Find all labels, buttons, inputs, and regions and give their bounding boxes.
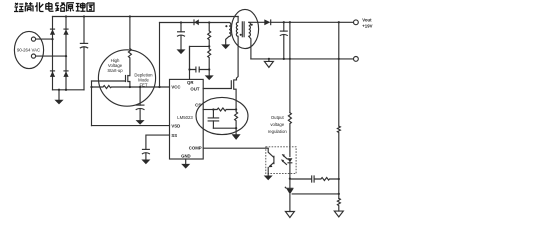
wire drain to primary bbox=[237, 36, 239, 78]
ground opto emitter bbox=[264, 176, 273, 181]
circle High Voltage Start-up bbox=[98, 50, 155, 106]
svg-text:90-264 VAC: 90-264 VAC bbox=[17, 48, 40, 53]
ground QR bbox=[208, 70, 210, 76]
resistor comp bbox=[314, 178, 339, 181]
bridge rectifier right column wire bbox=[65, 17, 67, 90]
svg-text:+19V: +19V bbox=[362, 24, 372, 29]
node output cap top bbox=[283, 21, 285, 23]
node divider B cross bbox=[338, 58, 340, 60]
wire aux bottom bbox=[226, 36, 229, 44]
IC U1 LM5023 box bbox=[170, 79, 204, 159]
wire output bottom rail bbox=[251, 58, 353, 60]
wire aux rail bbox=[160, 22, 230, 24]
svg-text:QR: QR bbox=[187, 80, 194, 85]
node QR divider top bbox=[208, 21, 210, 23]
node primary dot bbox=[240, 34, 242, 36]
wire comp RC left bbox=[290, 178, 311, 180]
LED opto bbox=[287, 158, 292, 162]
svg-text:Output: Output bbox=[271, 115, 285, 120]
node TL431 cathode tap bbox=[289, 178, 291, 180]
wire divider A bbox=[289, 22, 291, 112]
wire QR cap left leg bbox=[189, 46, 191, 69]
node sense resistor bottom bbox=[235, 127, 237, 129]
wire divider B bbox=[338, 22, 340, 126]
wire secondary bottom bbox=[249, 36, 251, 59]
capacitor QR filter bbox=[190, 69, 210, 71]
wire AC bottom to bridge right column bbox=[36, 55, 66, 57]
shunt regulator TL431 bbox=[289, 179, 291, 188]
node bridge right bottom bbox=[65, 89, 67, 91]
wire FET gate bbox=[92, 80, 126, 82]
capacitor VCC bbox=[139, 87, 141, 105]
node bridge ground tap bbox=[58, 89, 60, 91]
wire divider B mid bbox=[338, 179, 340, 198]
wire AC top to bridge left column bbox=[36, 38, 53, 40]
optocoupler U2 dashed box bbox=[266, 147, 296, 174]
ground TL431 hollow bbox=[285, 212, 294, 218]
svg-text:OUT: OUT bbox=[190, 87, 199, 92]
wire VSD run bbox=[92, 125, 170, 127]
wire GND pin bbox=[185, 159, 187, 164]
light arrows bbox=[282, 161, 287, 165]
wire gate-VSD vertical bbox=[91, 81, 93, 126]
svg-text:GND: GND bbox=[181, 154, 191, 159]
core line left bbox=[241, 21, 243, 37]
node divider A top bbox=[289, 21, 291, 23]
AC source ellipse 90-264 VAC bbox=[14, 31, 43, 68]
理 bbox=[76, 3, 86, 12]
resistor divider B upper bbox=[337, 126, 340, 179]
capacitor comp bbox=[312, 175, 314, 182]
ground bridge bbox=[58, 90, 60, 100]
svg-text:voltage: voltage bbox=[270, 122, 284, 127]
node bridge right top bbox=[65, 15, 67, 17]
wire QR tap to pin line bbox=[190, 46, 210, 79]
经 bbox=[14, 3, 24, 12]
node bridge left AC junction bbox=[51, 38, 53, 40]
terminal Vout- bbox=[354, 57, 359, 62]
winding primary bbox=[236, 22, 238, 36]
capacitor SS bbox=[142, 148, 150, 150]
svg-text:regulation: regulation bbox=[268, 129, 287, 134]
resistor QR lower bbox=[208, 46, 211, 69]
svg-text:Vout: Vout bbox=[362, 18, 372, 23]
winding auxiliary bbox=[229, 23, 231, 37]
wire SS pin bbox=[146, 135, 170, 149]
bridge bottom rail bbox=[53, 89, 85, 91]
node bridge right AC junction bbox=[65, 55, 67, 57]
diode D4 bridge lower-right bbox=[63, 71, 68, 77]
diode D3 bridge lower-left bbox=[50, 71, 55, 77]
AC terminal top bbox=[31, 37, 35, 41]
wire HV startup drop bbox=[129, 17, 131, 49]
node output cap bottom bbox=[283, 58, 285, 60]
图 bbox=[87, 3, 94, 11]
ground IC bbox=[181, 164, 190, 169]
node QR cap left bbox=[188, 68, 190, 70]
node ref join bbox=[338, 193, 340, 195]
diode D2 bridge upper-right bbox=[63, 29, 68, 34]
node VCC cap tap bbox=[139, 86, 141, 88]
transistor opto phototransistor bbox=[273, 156, 275, 165]
resistor current sense bbox=[235, 110, 238, 129]
wire output top rail bbox=[271, 21, 354, 23]
node FET source join bbox=[129, 86, 131, 88]
wire CS cap to ground node bbox=[213, 127, 236, 129]
resistor QR upper bbox=[208, 23, 211, 47]
diode output rectifier bbox=[264, 19, 270, 25]
wire COMP to opto bbox=[203, 147, 268, 149]
wire CS pin bbox=[203, 109, 213, 111]
node QR tap bbox=[208, 45, 210, 47]
node aux VCC join bbox=[158, 86, 160, 88]
wire secondary top bbox=[249, 21, 265, 23]
wire OUT to gate bbox=[203, 88, 231, 90]
ground divider hollow bbox=[334, 211, 343, 217]
node HV startup tap bbox=[129, 15, 131, 17]
原 bbox=[66, 3, 74, 12]
resistor startup source bbox=[92, 86, 130, 89]
capacitor bulk electrolytic bbox=[83, 17, 85, 44]
node sec ground tap bbox=[268, 58, 270, 60]
transistor Q1 depletion FET bbox=[128, 75, 130, 76]
resistor HV startup bbox=[128, 49, 131, 75]
ground sense bbox=[235, 128, 237, 134]
transistor Q2 power MOSFET bbox=[230, 80, 232, 89]
node QR cap right bbox=[208, 68, 210, 70]
wire rail to primary bbox=[237, 17, 239, 23]
node startup resistor left bbox=[90, 86, 92, 88]
diode VCC rectifier bbox=[194, 19, 198, 25]
node aux dot bbox=[225, 25, 227, 27]
title 经简化电路原理图 bbox=[14, 2, 94, 12]
node aux cap tap bbox=[180, 21, 182, 23]
resistor divider A upper bbox=[288, 113, 291, 157]
ground SS cap bbox=[141, 160, 150, 165]
wire TL431 ref bbox=[292, 193, 339, 195]
node secondary dot bbox=[251, 24, 253, 26]
路 bbox=[56, 3, 66, 11]
core line right bbox=[243, 21, 245, 37]
bridge rectifier left column wire bbox=[52, 17, 54, 90]
winding secondary bbox=[249, 22, 251, 36]
svg-text:VSD: VSD bbox=[171, 123, 180, 128]
resistor CS filter bbox=[213, 108, 236, 111]
terminal Vout+ bbox=[354, 20, 359, 25]
node CS source bbox=[235, 108, 237, 110]
ground aux winding bbox=[221, 44, 230, 49]
capacitor VCC aux electrolytic bbox=[180, 23, 182, 32]
ground secondary hollow bbox=[268, 59, 270, 62]
transformer T1 ellipse bbox=[231, 9, 258, 48]
svg-text:VCC: VCC bbox=[171, 85, 180, 90]
电 bbox=[46, 2, 54, 11]
node comp RC right bbox=[338, 178, 340, 180]
wire aux VCC feed vertical bbox=[159, 23, 161, 88]
capacitor CS filter bbox=[212, 110, 214, 118]
ground aux cap bbox=[177, 49, 186, 54]
AC terminal bottom bbox=[31, 54, 35, 58]
ground VCC cap bbox=[136, 120, 145, 125]
简 bbox=[25, 2, 33, 11]
svg-text:SS: SS bbox=[171, 133, 177, 138]
node bulk cap top bbox=[83, 15, 85, 17]
svg-text:Start-up: Start-up bbox=[107, 68, 123, 73]
wire VCC bbox=[130, 86, 170, 88]
svg-text:LM5023: LM5023 bbox=[177, 115, 193, 120]
svg-text:COMP: COMP bbox=[189, 146, 202, 151]
resistor divider B lower bbox=[337, 198, 340, 211]
node divider A cross bbox=[289, 58, 291, 60]
化 bbox=[35, 2, 43, 11]
node divider B top bbox=[338, 21, 340, 23]
capacitor output electrolytic bbox=[283, 22, 285, 31]
node CS filter tap bbox=[212, 108, 214, 110]
diode D1 bridge upper-left bbox=[50, 29, 55, 34]
main HV rail bbox=[53, 16, 239, 18]
ellipse CS network bbox=[196, 97, 248, 134]
